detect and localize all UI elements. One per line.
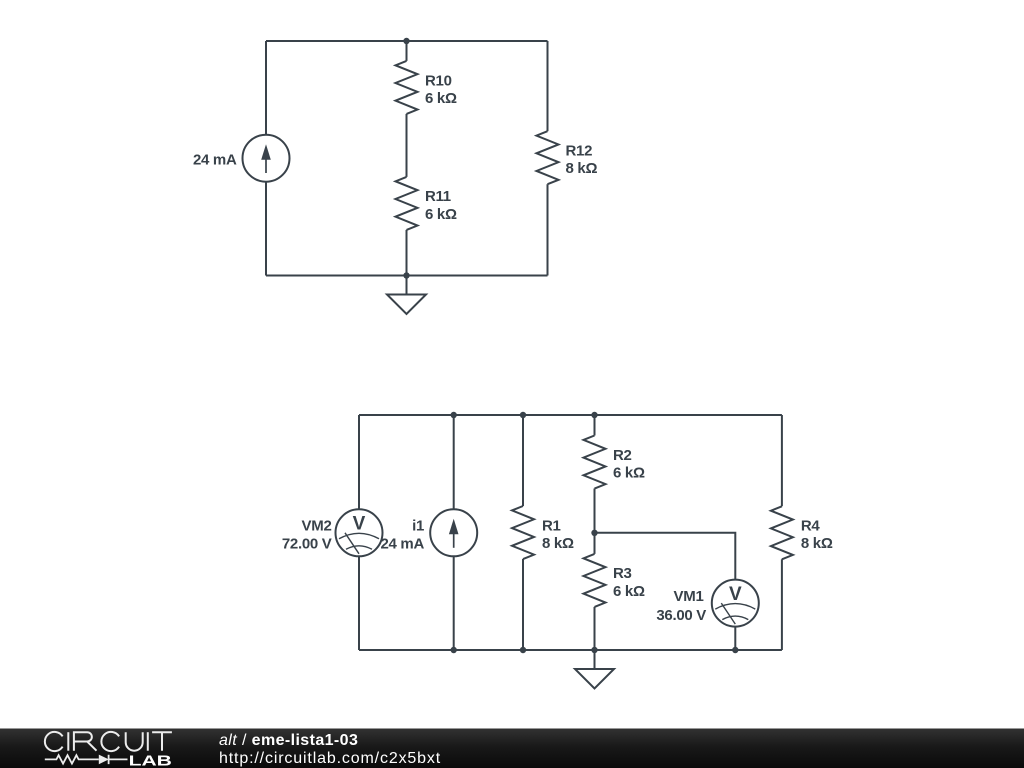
svg-text:24 mA: 24 mA: [380, 536, 424, 553]
node dot bottom rail at R1: [520, 647, 526, 653]
letter C: [101, 732, 119, 751]
svg-text:R4: R4: [801, 518, 821, 535]
wire bottom rail (top circuit): [266, 275, 548, 277]
svg-text:8 kΩ: 8 kΩ: [566, 160, 598, 177]
node dot mid (R2-R3 junction): [591, 530, 597, 536]
wire VM2 branch: [358, 415, 360, 650]
letter U: [126, 732, 143, 751]
wire right branch upper lead: [547, 41, 549, 131]
logo resistor-diode glyph: [45, 755, 128, 765]
svg-text:VM2: VM2: [302, 518, 332, 535]
ground (bottom circuit): [575, 650, 614, 689]
letter C: [45, 732, 63, 751]
letter I: [67, 732, 69, 751]
svg-text:6 kΩ: 6 kΩ: [425, 90, 457, 107]
letter R: [74, 732, 97, 751]
svg-text:24 mA: 24 mA: [193, 152, 237, 169]
letter I: [147, 732, 149, 751]
node dot bottom rail at i1: [451, 647, 457, 653]
wire between R10 and R11: [406, 114, 408, 177]
resistor R2: [584, 436, 606, 489]
wire i1 branch: [453, 415, 455, 650]
svg-text:VM1: VM1: [674, 588, 704, 605]
wire R1 upper lead: [522, 415, 524, 506]
svg-text:6 kΩ: 6 kΩ: [425, 206, 457, 223]
wire R4 upper lead: [781, 415, 783, 506]
svg-text:V: V: [729, 584, 742, 605]
wire top rail (top circuit): [266, 40, 548, 42]
svg-text:72.00 V: 72.00 V: [282, 535, 332, 552]
voltmeter VM2 body: [336, 509, 383, 556]
svg-text:R11: R11: [425, 188, 451, 205]
node dot bottom rail at VM1: [732, 647, 738, 653]
wire R3 lower lead: [594, 607, 596, 650]
svg-text:R2: R2: [613, 447, 632, 464]
resistor R4: [771, 506, 793, 559]
wire bottom rail (bottom circuit): [359, 649, 782, 651]
resistor R12: [537, 131, 559, 184]
node dot bottom rail at ground: [591, 647, 597, 653]
svg-text:36.00 V: 36.00 V: [656, 607, 706, 624]
svg-text:http://circuitlab.com/c2x5bxt: http://circuitlab.com/c2x5bxt: [219, 750, 441, 767]
wire top rail (bottom circuit): [359, 414, 782, 416]
wire middle branch lower lead: [406, 230, 408, 276]
svg-text:R3: R3: [613, 565, 632, 582]
wire left branch (top circuit): [265, 41, 267, 276]
resistor R1: [512, 506, 534, 559]
CircuitLab logo word CIRCUIT: [45, 732, 172, 751]
svg-text:alt / eme-lista1-03: alt / eme-lista1-03: [219, 732, 358, 749]
node dot bottom rail (top circuit): [403, 272, 409, 278]
svg-text:8 kΩ: 8 kΩ: [801, 535, 833, 552]
current source i1 body: [430, 509, 477, 556]
node dot top rail at i1: [451, 412, 457, 418]
node dot top rail at R2: [591, 412, 597, 418]
footer bar background: [0, 729, 1024, 768]
svg-text:LAB: LAB: [129, 752, 173, 768]
svg-text:6 kΩ: 6 kΩ: [613, 465, 645, 482]
svg-text:V: V: [353, 514, 366, 535]
ground (top circuit): [387, 276, 426, 315]
wire node to VM1: [595, 533, 736, 650]
svg-text:R12: R12: [566, 142, 593, 159]
svg-text:8 kΩ: 8 kΩ: [542, 535, 574, 552]
wire R1 lower lead: [522, 559, 524, 650]
resistor R10: [396, 61, 418, 114]
voltmeter VM1 body: [712, 580, 759, 627]
svg-text:R1: R1: [542, 517, 561, 534]
resistor R3: [584, 554, 606, 607]
wire right branch lower lead: [547, 184, 549, 275]
wire between R2 and R3: [594, 489, 596, 554]
node dot top rail (top circuit): [403, 38, 409, 44]
current source I3 body: [243, 135, 290, 182]
wire R4 lower lead: [781, 559, 783, 650]
svg-text:i1: i1: [412, 518, 424, 535]
wire R2 upper lead: [594, 415, 596, 436]
node dot top rail at R1: [520, 412, 526, 418]
svg-text:6 kΩ: 6 kΩ: [613, 583, 645, 600]
svg-text:R10: R10: [425, 72, 452, 89]
letter T: [152, 732, 172, 751]
resistor R11: [396, 177, 418, 230]
wire middle branch upper lead: [406, 41, 408, 61]
